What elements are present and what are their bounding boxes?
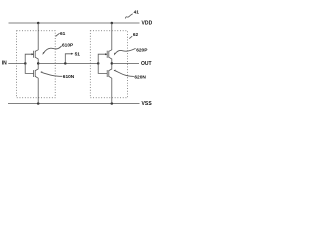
junction VDD / M620P source <box>111 22 114 25</box>
wire VSS rail <box>8 103 140 105</box>
label 610P leader arrow <box>43 52 45 55</box>
junction VDD / M610P source <box>37 22 40 25</box>
svg-text:41: 41 <box>134 10 140 16</box>
junction output 62 / OUT <box>111 62 114 65</box>
inverter 62 dashed box <box>90 31 127 98</box>
wire gate column 61 <box>25 54 33 73</box>
junction IN / gates 61 <box>24 62 27 65</box>
svg-text:51: 51 <box>75 52 81 58</box>
channel bar 620N <box>108 70 110 77</box>
inverter 61 dashed box <box>17 31 56 98</box>
svg-text:61: 61 <box>60 31 66 37</box>
junction node 51 tap <box>64 62 67 65</box>
transistor M620P (PMOS) <box>105 23 112 63</box>
wire node 51 tap <box>65 54 71 64</box>
svg-text:VDD: VDD <box>142 21 153 27</box>
wire OUT <box>112 62 139 64</box>
source jog 620P <box>109 23 112 51</box>
node 41 leader squiggle <box>125 14 132 19</box>
channel bar 610N <box>34 70 36 77</box>
gate arrow 620P <box>105 53 107 55</box>
arrow to node 51 <box>71 53 73 55</box>
svg-text:620N: 620N <box>134 74 146 80</box>
channel bar 610P <box>34 51 36 58</box>
junction output 61 <box>37 62 40 65</box>
label 62 leader <box>129 36 132 38</box>
junction VSS / M610N source <box>37 102 40 105</box>
junction mid / gates 62 <box>97 62 100 65</box>
drain jog 610P <box>35 57 38 63</box>
label 610N leader arrow <box>40 71 42 73</box>
wire stage1 output to stage2 gate <box>38 62 98 64</box>
drain jog 620N <box>109 63 112 70</box>
transistor M610P (PMOS) <box>32 23 39 63</box>
svg-text:VSS: VSS <box>142 101 153 107</box>
gate arrow 610P <box>32 53 34 55</box>
svg-text:IN: IN <box>2 60 7 66</box>
svg-text:62: 62 <box>133 32 139 38</box>
gate bar 620P <box>106 51 108 58</box>
gate bar 610P <box>33 51 35 58</box>
label 620P leader arrow <box>114 53 116 56</box>
drain jog 620P <box>109 57 112 63</box>
svg-text:OUT: OUT <box>141 61 152 67</box>
wire gate column 62 <box>98 54 107 73</box>
gate bar 620N <box>106 70 108 77</box>
wire VDD rail <box>9 22 140 24</box>
channel bar 620P <box>108 51 110 58</box>
gate bar 610N <box>33 70 35 77</box>
drain jog 610N <box>35 63 38 70</box>
transistor M620N (NMOS) <box>107 63 112 103</box>
junction VSS / M620N source <box>111 102 114 105</box>
label 61 leader <box>56 33 60 36</box>
source jog 610P <box>35 23 38 51</box>
transistor M610N (NMOS) <box>34 63 39 103</box>
source jog 610N <box>35 76 38 103</box>
svg-text:610P: 610P <box>62 42 74 48</box>
label 620N leader arrow <box>114 70 116 72</box>
source jog 620N <box>109 76 112 103</box>
svg-text:610N: 610N <box>63 74 75 80</box>
svg-text:620P: 620P <box>136 47 148 53</box>
wire IN <box>8 62 25 64</box>
